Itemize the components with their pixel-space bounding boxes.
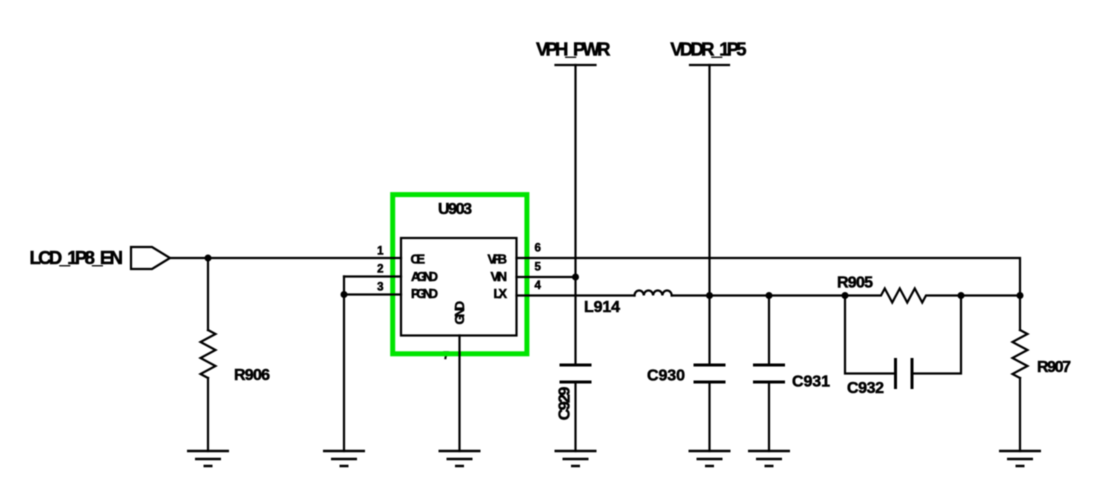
ground (R906) [187, 451, 229, 466]
capacitor plates [560, 358, 913, 389]
svg-text:3: 3 [377, 282, 383, 294]
wire: C931 to ground [768, 382, 770, 451]
wire: C932 right branch [912, 296, 961, 374]
node: VFB/R907 [1017, 292, 1024, 299]
wire: AGND/PGND down to ground [343, 277, 345, 452]
wire: inductor to R905 left node [672, 294, 845, 296]
ground (C929) [555, 451, 597, 466]
wire: U903 GND pin to ground [458, 336, 460, 452]
svg-text:LCD_1P8_EN: LCD_1P8_EN [30, 247, 124, 268]
IC U903 body [401, 238, 517, 336]
wire: VIN stub (pin 5) [517, 276, 576, 278]
wire: VFB net (pin 6) to feedback node [517, 258, 1021, 296]
wire: R907 to ground [1019, 378, 1021, 451]
ground (U903 GND) [439, 451, 481, 466]
resistor R907 [1013, 330, 1028, 378]
svg-text:R907: R907 [1037, 359, 1071, 376]
inductor L914 [634, 291, 671, 296]
wire: VPH_PWR down through VIN to C929 [574, 65, 576, 365]
ground (R907) [999, 451, 1041, 466]
svg-text:6: 6 [535, 243, 541, 255]
node: VDDR/LX [706, 292, 713, 299]
node: connector/R906 [205, 255, 212, 262]
connector LCD_1P8_EN [131, 247, 170, 269]
svg-text:C931: C931 [792, 374, 830, 391]
power VDDR_1P5 bar [690, 64, 729, 66]
capacitor C931 [753, 364, 785, 367]
node: C931 top [766, 292, 773, 299]
svg-text:2: 2 [377, 264, 383, 276]
svg-text:VFB: VFB [488, 252, 508, 267]
svg-text:AGND: AGND [411, 269, 438, 284]
wire: LX net down to C931 [768, 296, 770, 366]
capacitor C932 [894, 358, 897, 389]
svg-text:R906: R906 [234, 367, 270, 384]
svg-text:U903: U903 [438, 201, 472, 218]
svg-text:L914: L914 [584, 299, 620, 316]
wire: C929 to ground [574, 382, 576, 451]
node: VIN/VPH_PWR [572, 274, 579, 281]
svg-text:LX: LX [494, 286, 508, 301]
ground symbols [187, 451, 1041, 466]
svg-text:VDDR_1P5: VDDR_1P5 [670, 39, 746, 60]
junction dots [205, 255, 1024, 300]
wire: node to R906 [207, 258, 209, 330]
svg-text:GND: GND [452, 301, 467, 325]
wire: R906 to ground [207, 378, 209, 451]
svg-text:C932: C932 [847, 380, 884, 397]
wire: R905 right node to feedback node [961, 294, 1020, 296]
svg-text:C930: C930 [647, 367, 685, 384]
node: AGND/PGND [341, 291, 348, 298]
power VPH_PWR bar [556, 64, 596, 66]
wire: C932 left branch [845, 296, 896, 374]
node: R905 right [958, 292, 965, 299]
wire: connector to U903 pin 1 (CE) [170, 257, 401, 259]
capacitor C930 [694, 364, 726, 367]
svg-text:C929: C929 [557, 387, 574, 421]
node: R905 left [842, 292, 849, 299]
wire: pin 3 PGND stub [344, 293, 401, 295]
svg-text:5: 5 [535, 262, 542, 274]
svg-text:R905: R905 [837, 275, 873, 292]
ground (C931) [748, 451, 790, 466]
svg-text:1: 1 [377, 246, 384, 258]
svg-text:PGND: PGND [411, 286, 438, 301]
wire: R907 top [1019, 296, 1021, 331]
ground (C930) [689, 451, 731, 466]
wire: LX (pin 4) to inductor [517, 294, 635, 296]
svg-text:VPH_PWR: VPH_PWR [536, 39, 611, 60]
ground (AGND/PGND) [323, 451, 365, 466]
wire: pin 2 AGND stub [344, 275, 401, 277]
wire: LX net down to C930 [708, 296, 710, 366]
svg-text:CE: CE [411, 252, 426, 267]
resistor R905 [845, 289, 961, 303]
capacitor C929 [560, 364, 592, 367]
svg-text:4: 4 [535, 280, 542, 292]
svg-text:VIN: VIN [491, 269, 508, 284]
highlight box around U903 [393, 195, 527, 354]
resistor R906 [201, 330, 216, 378]
wire: VDDR_1P5 down to LX net [708, 65, 710, 296]
wire: C930 to ground [708, 382, 710, 451]
